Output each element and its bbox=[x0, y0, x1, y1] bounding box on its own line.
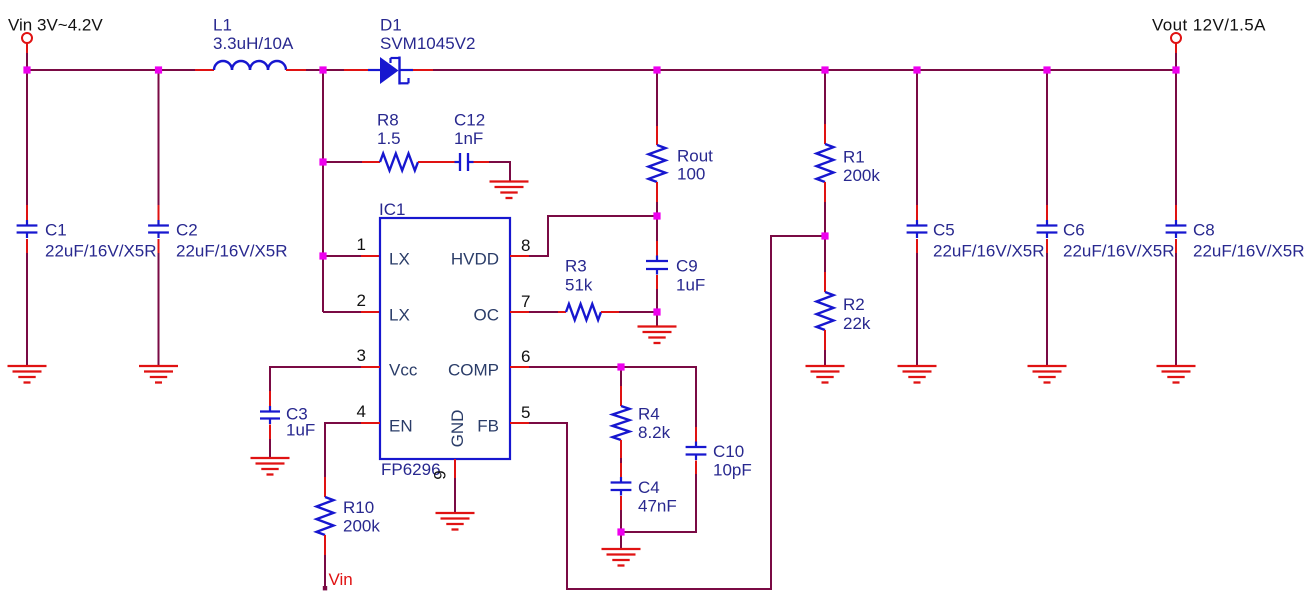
pin number 7 bbox=[521, 292, 530, 311]
label R3 value bbox=[565, 257, 593, 295]
svg-text:Vcc: Vcc bbox=[389, 361, 418, 380]
pin number 8 bbox=[521, 236, 530, 255]
pin name EN bbox=[389, 417, 413, 436]
node rail junction at C2 bbox=[155, 66, 162, 73]
resistor R4 bbox=[613, 406, 630, 440]
node HVDD junction bbox=[653, 212, 660, 219]
svg-text:Vout 12V/1.5A: Vout 12V/1.5A bbox=[1152, 16, 1266, 35]
wire rail to C6 bbox=[1046, 70, 1048, 225]
capacitor C3 bbox=[260, 406, 280, 424]
pin number 2 bbox=[357, 291, 366, 310]
wire R2 to ground bbox=[824, 330, 826, 366]
wire R1 to FB node bbox=[824, 182, 826, 236]
svg-text:22uF/16V/X5R: 22uF/16V/X5R bbox=[1193, 242, 1305, 261]
node Vin label bbox=[8, 16, 103, 35]
pin number 9 bbox=[431, 470, 450, 479]
wire input rail to L1 bbox=[27, 69, 195, 71]
svg-text:GND: GND bbox=[448, 410, 467, 448]
wire R8 to C12 bbox=[418, 161, 460, 163]
pin name HVDD bbox=[451, 250, 499, 269]
wire output rail bbox=[433, 69, 1176, 71]
svg-text:Vin 3V~4.2V: Vin 3V~4.2V bbox=[8, 16, 103, 35]
ground C8 bbox=[1157, 366, 1196, 383]
wire pin 4 to R10 bbox=[325, 423, 380, 497]
svg-text:51k: 51k bbox=[565, 276, 593, 295]
svg-text:22uF/16V/X5R: 22uF/16V/X5R bbox=[1063, 242, 1175, 261]
label C6 value bbox=[1063, 221, 1175, 261]
label C12 value bbox=[454, 111, 485, 149]
svg-text:C4: C4 bbox=[638, 478, 660, 497]
svg-text:R3: R3 bbox=[565, 257, 587, 276]
wire pin 9 GND to ground bbox=[454, 459, 456, 513]
svg-text:SVM1045V2: SVM1045V2 bbox=[380, 34, 475, 53]
ground R2 bbox=[806, 366, 845, 383]
node rail junction at Vin bbox=[23, 66, 30, 73]
wire HVDD node to C9 bbox=[656, 216, 658, 261]
wire LX to R8 bbox=[323, 161, 380, 163]
wire R4 to C4 bbox=[620, 440, 622, 482]
svg-text:C2: C2 bbox=[176, 221, 198, 240]
wire C1 to ground bbox=[26, 239, 28, 366]
capacitor C5 bbox=[907, 220, 928, 238]
wire Vin terminal to rail bbox=[26, 53, 28, 70]
wire C5 to ground bbox=[916, 239, 918, 366]
svg-text:3.3uH/10A: 3.3uH/10A bbox=[213, 34, 294, 53]
svg-text:1nF: 1nF bbox=[454, 129, 483, 148]
ground C12 bbox=[490, 182, 529, 199]
svg-text:3: 3 bbox=[357, 346, 366, 365]
wire pin 1 connection bbox=[323, 255, 380, 257]
svg-text:C6: C6 bbox=[1063, 221, 1085, 240]
ground C5 bbox=[898, 366, 937, 383]
svg-text:6: 6 bbox=[521, 347, 530, 366]
wire C12 to ground bbox=[474, 162, 511, 182]
svg-text:EN: EN bbox=[389, 417, 413, 436]
svg-text:HVDD: HVDD bbox=[451, 250, 499, 269]
svg-text:100: 100 bbox=[677, 165, 705, 184]
ground C2 bbox=[139, 366, 178, 383]
svg-text:1: 1 bbox=[357, 235, 366, 254]
wire L1 to LX node bbox=[306, 69, 344, 71]
svg-text:R4: R4 bbox=[638, 405, 660, 424]
ground C6 bbox=[1028, 366, 1067, 383]
svg-text:R2: R2 bbox=[843, 295, 865, 314]
wire C6 to ground bbox=[1046, 239, 1048, 366]
wire rail to Rout bbox=[656, 70, 658, 145]
svg-text:D1: D1 bbox=[380, 16, 402, 35]
svg-text:4: 4 bbox=[357, 402, 366, 421]
label C4 value bbox=[638, 478, 677, 516]
wire C10 to bottom node bbox=[621, 461, 696, 533]
inductor L1 bbox=[214, 61, 286, 70]
svg-text:C9: C9 bbox=[676, 257, 698, 276]
wire COMP node to C10 bbox=[621, 367, 696, 447]
wire pin stub L1 left bbox=[195, 69, 214, 71]
pin name LX 2 bbox=[389, 306, 410, 325]
pin name FB bbox=[477, 417, 499, 436]
ground C1 bbox=[8, 366, 47, 383]
label C10 value bbox=[713, 442, 752, 480]
label R10 value bbox=[343, 498, 380, 536]
wire rail to C2 bbox=[158, 70, 160, 225]
resistor R3 bbox=[566, 304, 601, 320]
node R8 junction bbox=[319, 158, 326, 165]
svg-text:22uF/16V/X5R: 22uF/16V/X5R bbox=[933, 242, 1045, 261]
wire bottom node to ground bbox=[620, 532, 622, 549]
label R4 value bbox=[638, 405, 671, 443]
label R8 value bbox=[377, 111, 401, 149]
svg-text:R1: R1 bbox=[843, 148, 865, 167]
resistor Rout bbox=[649, 145, 666, 182]
node rail junction at Rout bbox=[653, 66, 660, 73]
svg-text:OC: OC bbox=[474, 306, 500, 325]
label Rout value bbox=[677, 147, 713, 184]
capacitor C10 bbox=[686, 442, 707, 461]
wire C3 to ground bbox=[269, 425, 271, 459]
wire COMP node to R4 bbox=[620, 367, 622, 406]
wire R3 to OC node bbox=[601, 311, 657, 313]
resistor R10 bbox=[317, 497, 334, 535]
capacitor C6 bbox=[1037, 220, 1058, 238]
svg-text:COMP: COMP bbox=[448, 361, 499, 380]
wire Rout to HVDD node bbox=[656, 182, 658, 216]
wire LX node vertical bbox=[322, 70, 324, 312]
wire pin 6 to COMP node bbox=[510, 366, 621, 368]
svg-text:8.2k: 8.2k bbox=[638, 423, 671, 442]
wire pin 5 FB to divider bbox=[510, 236, 825, 589]
label IC1 bbox=[379, 200, 405, 219]
wire C4 to bottom node bbox=[620, 496, 622, 532]
port Vin terminal bbox=[22, 33, 32, 53]
node OC junction bbox=[653, 308, 660, 315]
pin name COMP bbox=[448, 361, 499, 380]
node rail junction at C5 bbox=[913, 66, 920, 73]
svg-text:47nF: 47nF bbox=[638, 497, 677, 516]
label R2 value bbox=[843, 295, 871, 333]
pin number 5 bbox=[521, 403, 530, 422]
resistor R1 bbox=[817, 144, 834, 182]
svg-text:IC1: IC1 bbox=[379, 200, 405, 219]
pin name OC bbox=[474, 306, 500, 325]
svg-text:22uF/16V/X5R: 22uF/16V/X5R bbox=[45, 242, 157, 261]
wire rail to R1 bbox=[824, 70, 826, 144]
label C1 value bbox=[45, 221, 157, 261]
svg-text:7: 7 bbox=[521, 292, 530, 311]
svg-text:22uF/16V/X5R: 22uF/16V/X5R bbox=[176, 242, 288, 261]
svg-text:1.5: 1.5 bbox=[377, 129, 401, 148]
capacitor C12 bbox=[455, 153, 474, 171]
svg-text:R8: R8 bbox=[377, 111, 399, 130]
wire rail to C1 bbox=[26, 70, 28, 225]
wire rail to C8 bbox=[1175, 70, 1177, 225]
ground C9 bbox=[638, 327, 677, 344]
wire FB node to R2 bbox=[824, 236, 826, 292]
capacitor C9 bbox=[646, 256, 668, 275]
ground IC GND pin bbox=[436, 513, 475, 530]
svg-text:LX: LX bbox=[389, 306, 410, 325]
capacitor C4 bbox=[611, 477, 632, 496]
pin name Vcc bbox=[389, 361, 418, 380]
svg-text:1uF: 1uF bbox=[676, 276, 705, 295]
wire pin stub D1 cathode bbox=[413, 69, 433, 71]
wire C8 to ground bbox=[1175, 239, 1177, 366]
wire pin 3 to C3 bbox=[270, 367, 380, 411]
label D1 value bbox=[380, 16, 475, 54]
ground C4 bbox=[602, 549, 641, 566]
svg-text:L1: L1 bbox=[213, 16, 232, 35]
svg-text:C8: C8 bbox=[1193, 221, 1215, 240]
op-amp U1 IC1 FP6296 body bbox=[380, 218, 510, 459]
svg-text:9: 9 bbox=[431, 470, 450, 479]
label C3 value bbox=[286, 405, 315, 440]
label L1 value bbox=[213, 16, 294, 54]
ground C3 bbox=[251, 458, 290, 475]
node pin1 junction bbox=[319, 252, 326, 259]
node rail junction at C6 bbox=[1043, 66, 1050, 73]
wire pin stub L1 right bbox=[286, 69, 306, 71]
resistor R8 bbox=[380, 154, 418, 171]
svg-text:2: 2 bbox=[357, 291, 366, 310]
wire OC node to ground bbox=[656, 312, 658, 327]
wire pin 2 connection bbox=[323, 311, 380, 313]
svg-text:C1: C1 bbox=[45, 221, 67, 240]
svg-text:8: 8 bbox=[521, 236, 530, 255]
label C9 value bbox=[676, 257, 705, 295]
svg-text:Rout: Rout bbox=[677, 147, 713, 166]
svg-text:5: 5 bbox=[521, 403, 530, 422]
node R4C4C10 junction bbox=[617, 528, 624, 535]
svg-text:LX: LX bbox=[389, 250, 410, 269]
capacitor C2 bbox=[148, 220, 169, 238]
wire C9 to OC node bbox=[656, 275, 658, 312]
node FB junction bbox=[821, 232, 828, 239]
capacitor C1 bbox=[17, 220, 38, 238]
svg-text:10pF: 10pF bbox=[713, 461, 752, 480]
wire pin 7 to R3 bbox=[510, 311, 566, 313]
label R1 value bbox=[843, 148, 880, 186]
label C5 value bbox=[933, 221, 1045, 261]
svg-text:C5: C5 bbox=[933, 221, 955, 240]
svg-text:R10: R10 bbox=[343, 498, 374, 517]
svg-text:C12: C12 bbox=[454, 111, 485, 130]
node Vout label bbox=[1152, 16, 1266, 35]
node Vin net label bbox=[329, 570, 353, 589]
wire pin 8 to HVDD node bbox=[510, 216, 657, 256]
svg-text:1uF: 1uF bbox=[286, 421, 315, 440]
port Vout terminal bbox=[1171, 33, 1181, 53]
label C2 value bbox=[176, 221, 288, 261]
wire rail to C5 bbox=[916, 70, 918, 225]
label C8 value bbox=[1193, 221, 1305, 261]
node rail junction at R1 bbox=[821, 66, 828, 73]
pin name LX 1 bbox=[389, 250, 410, 269]
svg-text:C10: C10 bbox=[713, 442, 744, 461]
pin number 4 bbox=[357, 402, 366, 421]
wire pin stub D1 anode bbox=[344, 69, 368, 71]
diode D1 bbox=[368, 57, 413, 85]
node rail junction at LX bbox=[319, 66, 326, 73]
wire Vout terminal to rail bbox=[1175, 53, 1177, 70]
resistor R2 bbox=[817, 292, 834, 330]
capacitor C8 bbox=[1166, 220, 1187, 238]
svg-text:Vin: Vin bbox=[329, 570, 353, 589]
svg-text:200k: 200k bbox=[843, 166, 880, 185]
svg-text:FB: FB bbox=[477, 417, 499, 436]
label FP6296 bbox=[381, 460, 441, 479]
wire C2 to ground bbox=[158, 239, 160, 366]
pin name GND bbox=[448, 410, 467, 448]
node COMP junction bbox=[617, 363, 624, 370]
pin number 1 bbox=[357, 235, 366, 254]
svg-text:22k: 22k bbox=[843, 314, 871, 333]
node rail junction at Vout bbox=[1172, 66, 1179, 73]
svg-text:200k: 200k bbox=[343, 517, 380, 536]
pin number 3 bbox=[357, 346, 366, 365]
wire R10 to Vin net bbox=[323, 535, 327, 590]
pin number 6 bbox=[521, 347, 530, 366]
